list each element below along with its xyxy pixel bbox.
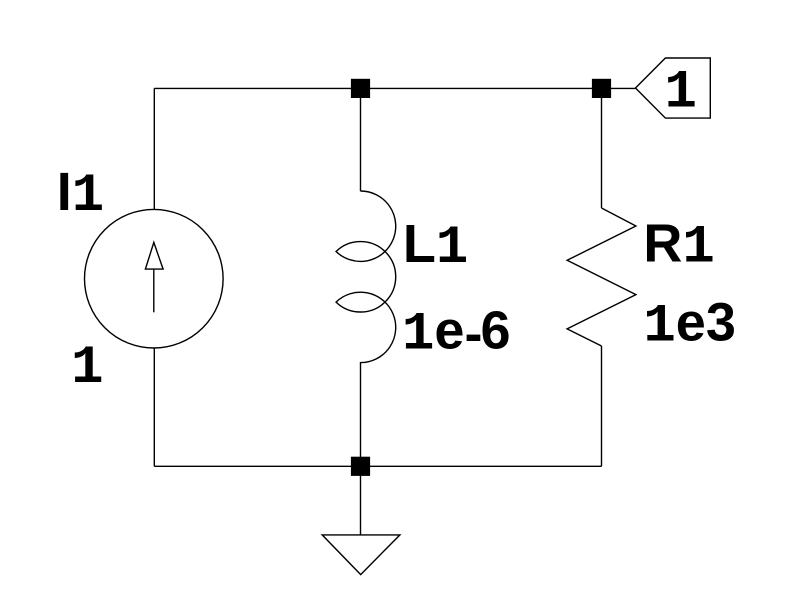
svg-text:I1: I1	[57, 162, 104, 227]
junction node top-middle	[351, 79, 370, 98]
wire right vertical upper	[601, 88, 603, 208]
junction node top-right	[592, 79, 611, 98]
wire middle vertical upper	[360, 88, 362, 191]
svg-text:L1: L1	[403, 214, 468, 279]
wire top horizontal	[154, 87, 635, 89]
inductor L1	[336, 191, 396, 363]
current source I1 circle	[85, 209, 224, 348]
wire bottom horizontal	[154, 465, 601, 467]
svg-text:1e-6: 1e-6	[402, 300, 510, 365]
svg-text:1e3: 1e3	[643, 292, 735, 357]
wire left vertical upper	[153, 88, 155, 209]
svg-text:R1: R1	[643, 213, 714, 278]
node flag 1 outline	[636, 58, 711, 118]
ground	[322, 535, 400, 575]
wire right vertical lower	[601, 346, 603, 466]
junction node bottom-middle	[351, 457, 370, 476]
svg-text:1: 1	[665, 63, 697, 124]
wire left vertical lower	[153, 348, 155, 467]
wire middle vertical lower	[360, 362, 362, 466]
current source I1 arrow	[145, 242, 163, 312]
resistor R1	[567, 208, 636, 346]
svg-text:1: 1	[71, 338, 103, 399]
wire ground stem	[360, 466, 362, 535]
